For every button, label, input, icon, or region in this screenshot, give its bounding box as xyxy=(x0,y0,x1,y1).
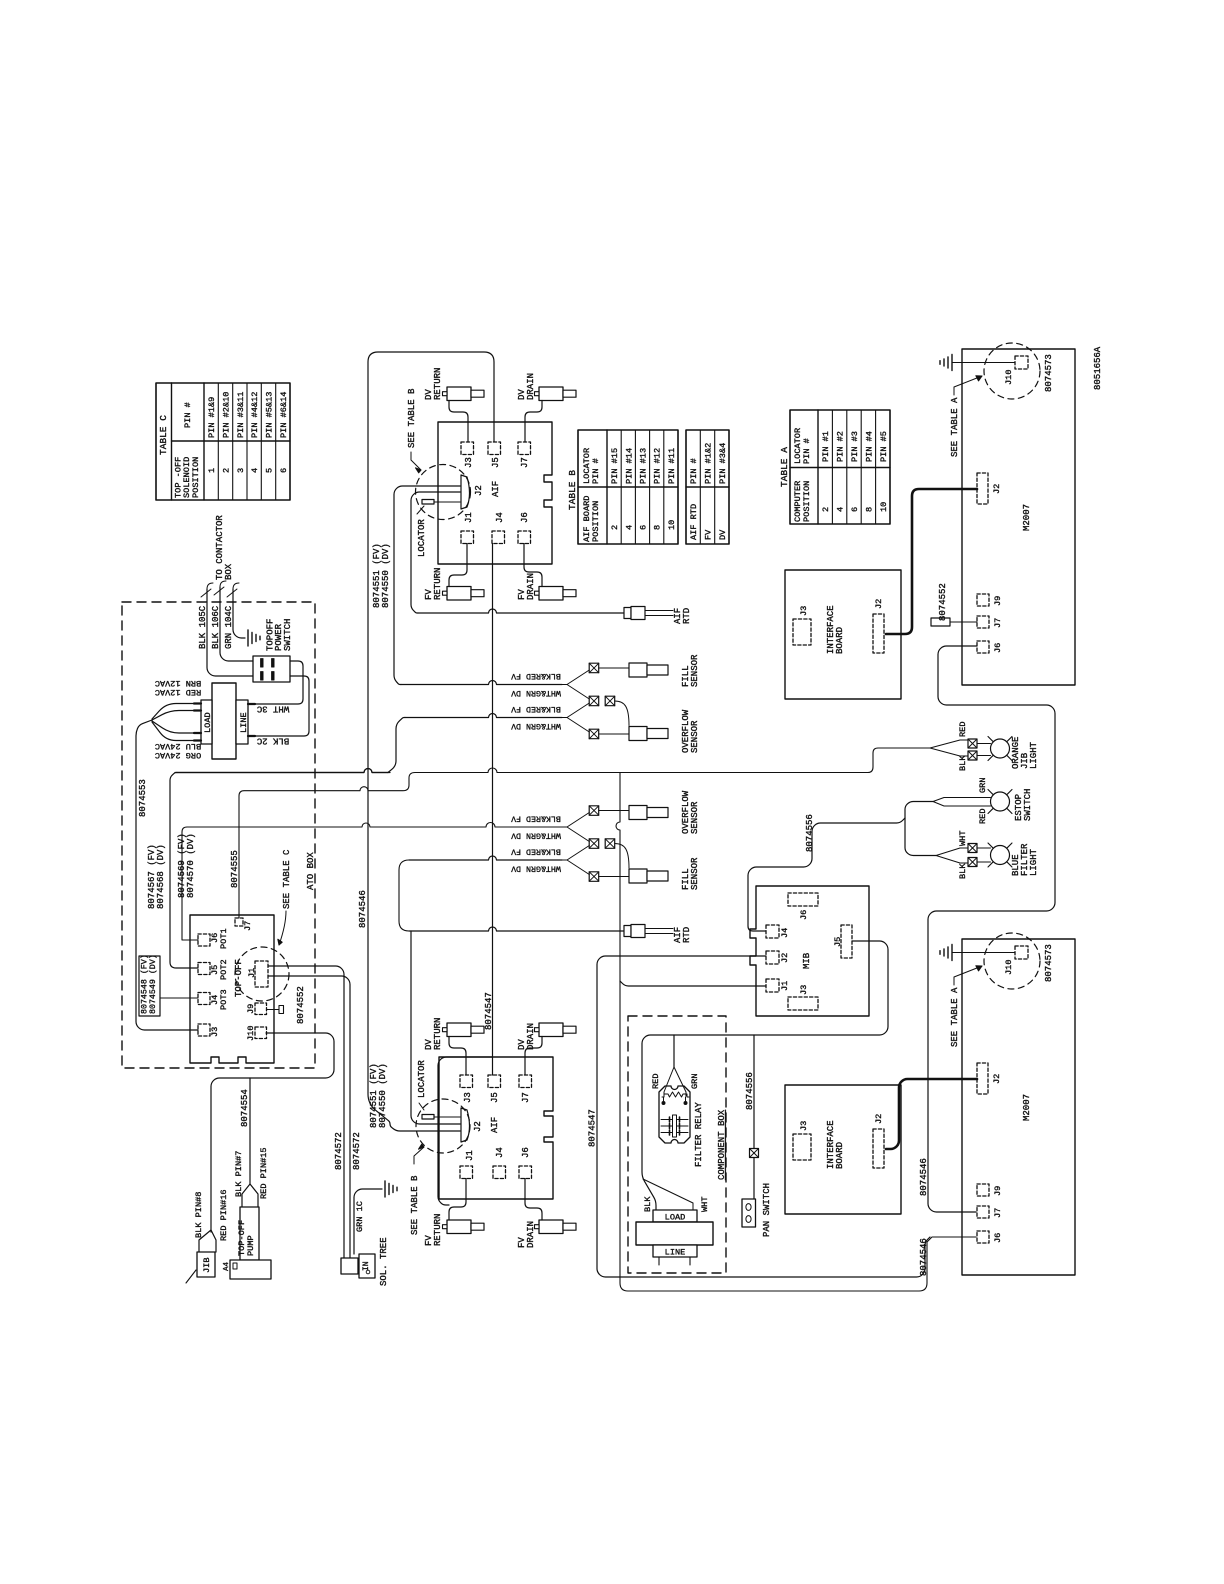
connector J6 (bottom) xyxy=(977,1231,989,1243)
svg-text:BLK PIN#7: BLK PIN#7 xyxy=(234,1151,244,1197)
svg-text:1: 1 xyxy=(207,468,217,473)
svg-text:IN: IN xyxy=(362,1261,371,1271)
connector J10 (bottom) xyxy=(1015,946,1028,959)
thick wire M2007-2 J2 to interface-2 J2 xyxy=(886,1079,977,1149)
splice to plug leads FILL SENSOR (upper) xyxy=(599,667,629,669)
svg-text:8074556: 8074556 xyxy=(805,814,815,852)
svg-text:AIF: AIF xyxy=(490,1117,500,1133)
wire branch to TOP-OFF PUMP xyxy=(249,1078,251,1184)
svg-text:SENSOR: SENSOR xyxy=(690,720,700,753)
connector J1 (MIB) xyxy=(766,979,779,992)
svg-text:PIN #5&13: PIN #5&13 xyxy=(265,392,275,438)
svg-text:PIN #3: PIN #3 xyxy=(850,431,860,462)
INTERFACE BOARD box (top) xyxy=(785,570,901,699)
svg-text:BLU 24VAC: BLU 24VAC xyxy=(155,741,201,751)
svg-text:GRN 1C: GRN 1C xyxy=(355,1201,365,1232)
ground symbol (top) xyxy=(940,355,952,371)
connector J10 (top) xyxy=(1015,356,1028,369)
svg-text:BOX: BOX xyxy=(224,563,234,580)
svg-text:A4: A4 xyxy=(223,1261,231,1271)
svg-text:RED PIN#15: RED PIN#15 xyxy=(259,1147,269,1199)
table B xyxy=(567,430,678,544)
connector J6 POT1 (ATO) xyxy=(198,934,210,946)
svg-text:BLK&RED FV: BLK&RED FV xyxy=(511,671,561,680)
thick wire M2007-1 J2 to interface J2 xyxy=(886,489,977,634)
svg-text:PIN #2&10: PIN #2&10 xyxy=(222,392,232,438)
svg-text:BLK: BLK xyxy=(643,1196,653,1212)
TOP-OFF PUMP base xyxy=(230,1260,271,1279)
TOP-OFF PUMP body xyxy=(240,1207,259,1260)
svg-text:TABLE B: TABLE B xyxy=(567,470,578,510)
svg-text:8074572: 8074572 xyxy=(334,1132,344,1170)
wire J2 pin line 2 with AIF RTD 1 drop xyxy=(411,492,460,613)
svg-text:8074549 (DV): 8074549 (DV) xyxy=(148,954,158,1014)
svg-text:JIB: JIB xyxy=(202,1258,212,1273)
svg-text:GRN: GRN xyxy=(978,778,988,793)
svg-text:J5: J5 xyxy=(491,457,501,468)
svg-text:4: 4 xyxy=(250,468,260,473)
svg-text:LINE: LINE xyxy=(665,1248,686,1258)
PAN SWITCH xyxy=(742,1199,756,1227)
svg-text:J5: J5 xyxy=(833,937,843,947)
connector J4 (AIF top) xyxy=(492,531,505,544)
svg-text:8074547: 8074547 xyxy=(588,1109,598,1147)
connector J1 (AIF bottom) xyxy=(460,1166,473,1179)
svg-text:8074553: 8074553 xyxy=(138,779,148,817)
dashed circle around J2 (bottom) xyxy=(416,1099,470,1153)
wire upper sensor feed 1 from J2 (top AIF) xyxy=(394,486,460,685)
TOP-OFF PUMP plug xyxy=(242,1184,258,1207)
connector J2 AIF (top board) xyxy=(461,475,470,509)
svg-text:J1: J1 xyxy=(780,981,790,991)
svg-text:BLK PIN#8: BLK PIN#8 xyxy=(194,1192,204,1238)
transformer core (component) xyxy=(636,1222,713,1245)
connector J2 (MIB) xyxy=(766,951,779,964)
svg-text:SWITCH: SWITCH xyxy=(283,619,293,651)
svg-text:M2007: M2007 xyxy=(1022,1094,1032,1121)
svg-text:J6: J6 xyxy=(521,1147,531,1158)
svg-text:8051656A: 8051656A xyxy=(1093,346,1103,390)
svg-text:PIN #13: PIN #13 xyxy=(639,448,649,484)
svg-text:AIF RTD: AIF RTD xyxy=(689,504,699,540)
svg-text:FV: FV xyxy=(704,529,714,540)
connector J2 (top) xyxy=(977,473,988,504)
COMPONENT BOX dashed enclosure xyxy=(628,1016,726,1273)
connector J4 (MIB) xyxy=(766,925,779,938)
plug OVERFLOW SENSOR (upper) xyxy=(629,727,647,741)
svg-text:RED: RED xyxy=(651,1074,661,1089)
connector J2 AIF (bottom board) xyxy=(461,1108,470,1142)
svg-text:SEE TABLE A: SEE TABLE A xyxy=(950,397,960,457)
connector J3 (interface bottom) xyxy=(793,1134,811,1160)
svg-text:ATO BOX: ATO BOX xyxy=(306,852,316,890)
label 8074569 (FV) 8074570 (DV) xyxy=(177,833,196,898)
SOL TREE box 2 xyxy=(359,1254,375,1278)
svg-text:8074570 (DV): 8074570 (DV) xyxy=(186,833,196,898)
wire DV DRAIN to J7 (bottom) xyxy=(525,1037,542,1076)
connector J9 (bottom) xyxy=(977,1184,989,1196)
svg-text:LINE: LINE xyxy=(239,712,249,733)
svg-text:8074552: 8074552 xyxy=(938,583,948,621)
svg-text:SEE TABLE B: SEE TABLE B xyxy=(410,1175,420,1235)
svg-text:BOARD: BOARD xyxy=(835,627,845,654)
transformer LOAD winding (ATO) xyxy=(201,700,212,744)
pump inlet A4 xyxy=(233,1263,237,1269)
ESTOP SWITCH symbol xyxy=(988,790,1012,814)
wire V5: MIB J1 / M2007-2 J6 trunk xyxy=(616,773,976,1292)
svg-text:J5: J5 xyxy=(490,1092,500,1103)
svg-text:J4: J4 xyxy=(780,928,790,938)
wire DV DRAIN to J7 (top) xyxy=(525,401,542,443)
svg-text:PIN #: PIN # xyxy=(689,458,699,484)
svg-text:M2007: M2007 xyxy=(1022,504,1032,531)
connector J5 POT2 (ATO) xyxy=(198,963,210,975)
svg-text:J9: J9 xyxy=(993,596,1003,606)
svg-text:4: 4 xyxy=(836,507,846,512)
svg-text:J1: J1 xyxy=(465,1150,475,1161)
svg-text:GRN: GRN xyxy=(690,1074,700,1089)
plug FV DRAIN (top) xyxy=(539,587,563,601)
wire switch to LINE WHT 3C xyxy=(254,661,303,704)
svg-text:WHT&GRN DV: WHT&GRN DV xyxy=(511,863,561,872)
svg-text:POSITION: POSITION xyxy=(591,501,601,542)
svg-text:RED: RED xyxy=(958,722,968,737)
wire GRN 104C to ground xyxy=(233,583,239,589)
wire 8074546: M2007-1 J6 to M2007-2 J7 xyxy=(928,646,1055,1212)
svg-text:RED: RED xyxy=(978,809,988,824)
dashed circle J10 (bottom) xyxy=(984,933,1040,989)
svg-text:WHT&GRN DV: WHT&GRN DV xyxy=(511,688,561,697)
splices ORANGE JIB LIGHT xyxy=(968,739,977,748)
svg-text:PIN #1&2: PIN #1&2 xyxy=(704,443,714,484)
svg-text:J7: J7 xyxy=(993,618,1003,628)
wire 8074556 from MIB J4 to ESTOP/BLUE trunk xyxy=(748,818,905,931)
svg-text:PUMP: PUMP xyxy=(246,1235,256,1256)
svg-text:6: 6 xyxy=(279,468,289,473)
svg-text:PIN #6&14: PIN #6&14 xyxy=(279,392,289,438)
svg-text:SEE TABLE A: SEE TABLE A xyxy=(950,987,960,1047)
svg-text:BLK 2C: BLK 2C xyxy=(256,736,289,746)
svg-text:PIN #15: PIN #15 xyxy=(610,448,620,484)
TOPOFF POWER SWITCH xyxy=(253,656,290,682)
plug DV RETURN (top) xyxy=(447,387,471,401)
ground symbol (sol tree) xyxy=(385,1181,397,1197)
connector J1 (AIF top) xyxy=(461,531,474,544)
svg-text:DRAIN: DRAIN xyxy=(526,1221,536,1248)
svg-text:PIN #2: PIN #2 xyxy=(836,431,846,462)
svg-text:POT1: POT1 xyxy=(219,928,229,949)
wire bus1: ATO J5 up and right, into upper sensor feed 2 xyxy=(170,773,198,969)
svg-text:BLK&RED FV: BLK&RED FV xyxy=(511,846,561,855)
svg-text:BLK 106C: BLK 106C xyxy=(211,605,221,649)
svg-text:SENSOR: SENSOR xyxy=(690,801,700,834)
svg-text:AIF: AIF xyxy=(491,481,501,497)
connector J4 POT3 (ATO) xyxy=(198,993,210,1005)
svg-text:LOAD: LOAD xyxy=(665,1213,686,1223)
svg-text:J7: J7 xyxy=(520,457,530,468)
transformer LINE winding (ATO) xyxy=(236,700,248,744)
BLUE FILTER LIGHT symbol xyxy=(988,843,1012,867)
svg-text:DV: DV xyxy=(718,529,728,540)
svg-text:PIN #11: PIN #11 xyxy=(667,448,677,484)
svg-text:DRAIN: DRAIN xyxy=(526,573,536,600)
connector J5 (AIF bottom) xyxy=(488,1075,501,1088)
connector J3 (ATO) xyxy=(198,1024,210,1036)
ground symbol (topoff switch) xyxy=(248,630,260,646)
svg-text:2: 2 xyxy=(821,507,831,512)
svg-text:J3: J3 xyxy=(464,457,474,468)
wire GRN 1C to ground xyxy=(354,1189,382,1254)
wire J1 to FV RETURN (top) xyxy=(449,544,467,587)
wire pan switch drop with splice xyxy=(753,1035,755,1199)
svg-text:MIB: MIB xyxy=(802,952,812,969)
connector J6 (AIF bottom) xyxy=(519,1166,532,1179)
wire bus3: ATO J6 up and right to lower sensor feed 1 xyxy=(182,823,562,940)
svg-text:8: 8 xyxy=(864,507,874,512)
svg-text:10: 10 xyxy=(667,520,677,530)
fan-out wires OVERFLOW SENSOR (lower) xyxy=(567,813,589,842)
transformer LOAD box (component) xyxy=(653,1210,697,1222)
connector J2 (interface bottom) xyxy=(873,1129,884,1168)
label 8074551 (FV) 8074550 (DV) (bottom cable) xyxy=(369,1063,388,1128)
connector J10 (ATO) xyxy=(255,1027,267,1039)
svg-text:8074550 (DV): 8074550 (DV) xyxy=(381,543,391,608)
INTERFACE BOARD box (bottom) xyxy=(785,1085,901,1214)
svg-text:PIN #3&11: PIN #3&11 xyxy=(236,392,246,438)
connector J2 (bottom) xyxy=(977,1063,988,1094)
svg-text:DRAIN: DRAIN xyxy=(526,1023,536,1050)
SOL TREE box 1 xyxy=(341,1258,358,1274)
svg-text:WHT&GRN DV: WHT&GRN DV xyxy=(511,830,561,839)
plug OVERFLOW SENSOR (lower) xyxy=(629,806,647,820)
wire A 8074547: MIB J2 down around to M2007-2 J6 xyxy=(597,956,930,1277)
svg-text:8074548 (FV): 8074548 (FV) xyxy=(139,954,149,1014)
connector J6 (MIB) xyxy=(788,893,818,906)
splice connectors FILL SENSOR (upper) xyxy=(589,663,599,673)
wire filter relay feed xyxy=(673,1035,675,1067)
wire MIB J1 entry xyxy=(620,981,766,986)
hop of bus1-left over V1 at 368 xyxy=(175,769,390,773)
svg-text:3: 3 xyxy=(236,468,246,473)
svg-text:J3: J3 xyxy=(210,1027,220,1037)
M2007 box (bottom) xyxy=(962,939,1075,1275)
svg-text:BLK 105C: BLK 105C xyxy=(198,605,208,649)
wire DV RETURN to J3 (bottom) xyxy=(449,1037,466,1076)
filter relay capacitor contacts xyxy=(673,1115,677,1137)
svg-text:J9: J9 xyxy=(993,1186,1003,1196)
svg-text:J1: J1 xyxy=(247,968,257,978)
svg-text:PIN #1&9: PIN #1&9 xyxy=(207,397,217,438)
svg-text:LOCATOR: LOCATOR xyxy=(417,1060,427,1098)
connector J3 (interface top) xyxy=(793,619,811,645)
svg-text:2: 2 xyxy=(222,468,232,473)
svg-text:J10: J10 xyxy=(1004,370,1014,385)
svg-text:4: 4 xyxy=(624,525,634,530)
svg-text:SENSOR: SENSOR xyxy=(690,857,700,890)
splice connectors OVERFLOW SENSOR (lower) xyxy=(589,806,599,816)
svg-text:COMPONENT BOX: COMPONENT BOX xyxy=(717,1109,727,1180)
svg-text:LOCATOR: LOCATOR xyxy=(417,519,427,557)
wire ATO J10 to JIB/pump 8074554 xyxy=(211,1033,334,1232)
svg-text:POSITION: POSITION xyxy=(802,481,812,522)
svg-text:J2: J2 xyxy=(992,1074,1002,1084)
plug FILL SENSOR (upper) xyxy=(629,663,647,677)
wire locator feed (bottom AIF) xyxy=(438,1057,493,1205)
wire BLK 105C from contactor xyxy=(207,583,213,589)
connector J5 (MIB) xyxy=(841,925,852,958)
svg-text:POT3: POT3 xyxy=(219,989,229,1010)
plug DV RETURN (bottom) xyxy=(447,1023,471,1037)
wire lower sensor feed 2 / AIF RTD 2 line xyxy=(409,856,562,860)
svg-text:J2: J2 xyxy=(992,484,1002,494)
svg-text:8074547: 8074547 xyxy=(484,992,494,1030)
svg-text:BLK: BLK xyxy=(958,755,968,771)
svg-text:LOAD: LOAD xyxy=(203,712,213,733)
svg-text:SOL. TREE: SOL. TREE xyxy=(379,1237,389,1286)
svg-text:SEE TABLE C: SEE TABLE C xyxy=(282,849,292,909)
svg-text:PIN #: PIN # xyxy=(591,458,601,484)
wire BLK 106C from contactor xyxy=(220,581,226,587)
FILTER RELAY outline xyxy=(659,1086,690,1143)
svg-text:J2: J2 xyxy=(874,599,884,609)
svg-text:J10: J10 xyxy=(1004,960,1014,975)
svg-text:LIGHT: LIGHT xyxy=(1029,741,1039,769)
svg-text:J3: J3 xyxy=(463,1092,473,1103)
wire DV RETURN to J3 (top) xyxy=(449,401,468,443)
LINE stubs xyxy=(658,1257,660,1265)
svg-text:J6: J6 xyxy=(520,512,530,523)
svg-text:8074552: 8074552 xyxy=(296,986,306,1024)
JIB box xyxy=(197,1252,215,1277)
wire J2 pin line 2 (bottom AIF) from px411 xyxy=(411,931,460,1124)
LINE terminals xyxy=(248,703,255,705)
wire LOAD bundle down left side xyxy=(136,720,198,1030)
svg-text:BLK&RED FV: BLK&RED FV xyxy=(511,704,561,713)
connector J7 (AIF bottom) xyxy=(519,1075,532,1088)
svg-text:PIN #1: PIN #1 xyxy=(821,431,831,462)
svg-text:8074546: 8074546 xyxy=(919,1238,929,1276)
wire MIB J5 to component box loop xyxy=(642,941,888,1210)
svg-text:J2: J2 xyxy=(474,485,484,496)
svg-text:PIN #: PIN # xyxy=(183,402,193,428)
wire WHT branch to LOAD xyxy=(643,1179,693,1210)
connector J6 (AIF top) xyxy=(518,531,531,544)
svg-text:PIN #12: PIN #12 xyxy=(653,448,663,484)
svg-text:8074546: 8074546 xyxy=(919,1158,929,1196)
svg-text:J10: J10 xyxy=(246,1026,256,1041)
svg-text:8074546: 8074546 xyxy=(358,890,368,928)
connector J5 (AIF top) xyxy=(488,442,501,455)
plug FILL SENSOR (lower) xyxy=(629,869,647,883)
svg-text:2: 2 xyxy=(610,525,620,530)
svg-text:J2: J2 xyxy=(874,1114,884,1124)
wire J6 to FV DRAIN (top) xyxy=(524,544,542,587)
LOAD terminals xyxy=(194,702,201,704)
svg-text:PIN #4&12: PIN #4&12 xyxy=(250,392,260,438)
svg-text:POSITION: POSITION xyxy=(191,457,201,498)
splices BLUE FILTER LIGHT xyxy=(968,844,977,853)
svg-text:PIN #14: PIN #14 xyxy=(624,448,634,484)
svg-text:8074573: 8074573 xyxy=(1044,354,1054,392)
svg-text:J6: J6 xyxy=(993,643,1003,653)
svg-text:SWITCH: SWITCH xyxy=(1023,789,1033,821)
svg-text:PIN #4: PIN #4 xyxy=(864,431,874,462)
svg-text:SENSOR: SENSOR xyxy=(690,654,700,687)
svg-text:WHT&GRN DV: WHT&GRN DV xyxy=(511,721,561,730)
svg-text:BRN 12VAC: BRN 12VAC xyxy=(155,678,201,688)
svg-text:TABLE C: TABLE C xyxy=(158,415,169,455)
svg-text:LIGHT: LIGHT xyxy=(1029,848,1039,876)
svg-text:J3: J3 xyxy=(799,985,809,995)
connector J3 (AIF top) xyxy=(461,442,474,455)
svg-text:BOARD: BOARD xyxy=(835,1142,845,1169)
svg-text:5: 5 xyxy=(265,468,275,473)
plug FV RETURN (top) xyxy=(447,587,471,601)
svg-text:TABLE A: TABLE A xyxy=(779,447,790,487)
svg-text:SEE TABLE B: SEE TABLE B xyxy=(407,388,417,448)
svg-text:RED PIN#16: RED PIN#16 xyxy=(219,1189,229,1241)
connector J6 (top) xyxy=(977,641,989,653)
svg-text:8074554: 8074554 xyxy=(240,1089,250,1127)
connector J4 (AIF bottom) xyxy=(493,1166,506,1179)
connector J9 (top) xyxy=(977,594,989,606)
dashed circle around J1 (ATO) xyxy=(235,947,289,1001)
wire bus2: ATO J7 up, right, jog up to bus line toward lights xyxy=(239,748,930,918)
LOAD lead wires converge xyxy=(152,704,194,720)
TOP-OFF board outline (ATO) xyxy=(190,915,274,1063)
svg-text:PIN #5: PIN #5 xyxy=(879,431,889,462)
connector J3 (MIB) xyxy=(788,997,818,1010)
svg-text:RETURN: RETURN xyxy=(433,568,443,600)
svg-text:PAN SWITCH: PAN SWITCH xyxy=(762,1183,772,1237)
connector J7 (AIF top) xyxy=(518,442,531,455)
wire switch to LINE BLK 2C xyxy=(254,676,309,736)
connector 8074552 pigtail at J9 (ATO) xyxy=(279,1006,284,1014)
JIB plug xyxy=(199,1230,216,1252)
splice to plug leads OVERFLOW SENSOR (lower) xyxy=(599,810,629,812)
ORANGE JIB LIGHT symbol xyxy=(988,737,1012,761)
filter relay resistor xyxy=(662,1092,689,1097)
locator pin (top board) xyxy=(422,500,434,505)
svg-text:J4: J4 xyxy=(495,512,505,523)
ESTOP SWITCH leads xyxy=(933,798,991,802)
wire ATO J1 pin B to SOL TREE xyxy=(268,976,350,1258)
svg-text:J3: J3 xyxy=(799,606,809,616)
transformer core (ATO) xyxy=(212,683,236,759)
AIF RTD connector 2 xyxy=(624,926,631,937)
svg-text:J7: J7 xyxy=(521,1092,531,1103)
TO CONTACTOR BOX label with break marks xyxy=(215,515,234,580)
svg-text:RTD: RTD xyxy=(682,608,692,624)
locator pin (bottom board) xyxy=(422,1115,434,1120)
plug DV DRAIN (bottom) xyxy=(539,1023,563,1037)
AIF board (top) outline xyxy=(438,422,552,564)
ground symbol (bottom) xyxy=(940,945,952,961)
svg-text:RETURN: RETURN xyxy=(433,368,443,400)
plug DV DRAIN (top) xyxy=(539,387,563,401)
svg-text:POT2: POT2 xyxy=(219,959,229,980)
svg-text:J7: J7 xyxy=(243,921,253,931)
connector J7 (ATO) xyxy=(235,918,243,926)
boxed label 8074548 (FV) 8074549 (DV) xyxy=(139,956,160,1016)
svg-text:TOP-OFF: TOP-OFF xyxy=(234,959,244,997)
MIB board outline xyxy=(750,886,869,1016)
svg-text:RTD: RTD xyxy=(682,927,692,943)
connector J9 (ATO) xyxy=(255,1003,267,1015)
svg-text:PIN #: PIN # xyxy=(802,438,812,464)
AIF RTD connector 1 xyxy=(624,608,631,619)
ATO BOX dashed enclosure xyxy=(122,602,315,1068)
